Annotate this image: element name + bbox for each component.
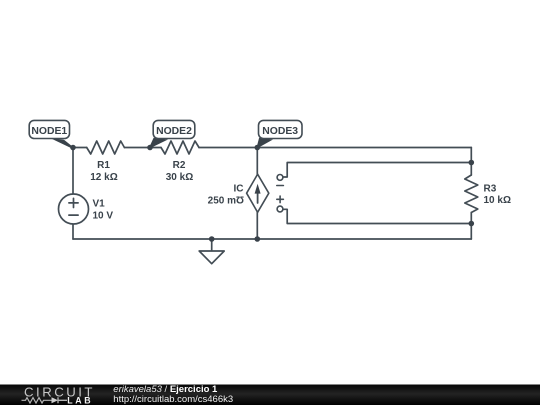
dependent source IC arrow shaft xyxy=(257,192,259,203)
node label NODE3 box xyxy=(259,120,303,138)
svg-text:250 m: 250 m xyxy=(208,196,236,207)
node dot NODE1 xyxy=(70,145,76,151)
resistor R2 xyxy=(161,141,199,154)
dependent source IC arrowhead xyxy=(255,184,261,194)
logo wire with resistor zigzag xyxy=(22,398,52,403)
svg-text:V1: V1 xyxy=(93,199,106,210)
wire node3 down to IC source xyxy=(256,148,258,175)
sense minus sign xyxy=(277,185,284,187)
wire right vertical bottom (R3 to bottom rail) xyxy=(470,213,472,240)
wire bottom rail xyxy=(73,238,471,240)
sense terminal minus circle xyxy=(277,175,283,181)
wire left branch bottom (V1 to bottom rail) xyxy=(72,224,74,239)
wire R2 to node3 xyxy=(199,147,257,149)
wire right vertical top (corner to R3) xyxy=(470,148,472,176)
svg-text:NODE2: NODE2 xyxy=(156,126,192,137)
ground symbol triangle xyxy=(199,251,224,264)
node junction dot ground xyxy=(209,236,215,242)
wire left branch top (node1 to V1) xyxy=(72,148,74,195)
svg-text:NODE3: NODE3 xyxy=(262,126,298,137)
wire node1 to R1 xyxy=(73,147,87,149)
svg-text:10 kΩ: 10 kΩ xyxy=(484,195,511,206)
node junction dot IC bottom xyxy=(254,236,260,242)
svg-text:NODE1: NODE1 xyxy=(31,126,67,137)
resistor R1 xyxy=(87,141,125,154)
node label NODE2 box xyxy=(153,120,195,138)
wire node3 to top-right corner xyxy=(257,147,471,149)
dependent source IC diamond xyxy=(247,174,269,212)
svg-text:LAB: LAB xyxy=(67,395,93,405)
svg-text:R1: R1 xyxy=(97,160,110,171)
node label NODE1 box xyxy=(29,120,69,138)
svg-text:IC: IC xyxy=(234,184,244,195)
footer bar background xyxy=(0,385,540,405)
wire sense terminal minus to node on right xyxy=(283,163,472,178)
resistor R3 xyxy=(465,175,478,213)
logo diode bar and wire xyxy=(58,397,67,403)
node dot NODE2 xyxy=(147,145,153,151)
node junction dot sense bottom right xyxy=(469,221,475,227)
node flag pointer NODE2 xyxy=(150,138,169,148)
sense plus sign xyxy=(277,196,284,203)
voltage source V1 minus sign xyxy=(69,214,78,216)
svg-text:30 kΩ: 30 kΩ xyxy=(166,172,193,183)
node flag pointer NODE3 xyxy=(257,138,273,148)
node flag pointer NODE1 xyxy=(50,138,75,148)
svg-text:12 kΩ: 12 kΩ xyxy=(90,172,117,183)
logo diode symbol xyxy=(52,397,59,403)
svg-text:10 V: 10 V xyxy=(93,211,114,222)
wire R1 to node2 xyxy=(124,147,161,149)
node junction dot sense top right xyxy=(469,160,475,166)
svg-text:http://circuitlab.com/cs466k3: http://circuitlab.com/cs466k3 xyxy=(113,394,233,405)
sense terminal plus circle xyxy=(277,206,283,212)
voltage source V1 circle xyxy=(59,194,89,224)
svg-text:R2: R2 xyxy=(173,160,186,171)
voltage source V1 plus sign xyxy=(69,198,78,207)
node dot NODE3 xyxy=(254,145,260,151)
wire IC source to bottom rail xyxy=(256,212,258,239)
svg-text:R3: R3 xyxy=(484,184,497,195)
ground stub wire xyxy=(211,239,213,251)
svg-text:Ω: Ω xyxy=(236,193,244,204)
wire sense terminal plus to node on right xyxy=(283,209,472,223)
